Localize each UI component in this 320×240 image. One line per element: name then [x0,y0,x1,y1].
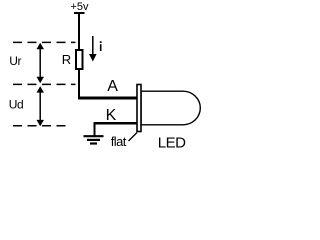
svg-text:Ud: Ud [9,97,23,111]
svg-text:K: K [106,107,117,124]
svg-text:Ur: Ur [9,54,21,68]
svg-text:flat: flat [111,134,127,149]
svg-text:LED: LED [158,134,186,151]
svg-text:+5v: +5v [71,1,90,13]
svg-text:A: A [107,78,118,95]
svg-text:R: R [62,52,71,67]
